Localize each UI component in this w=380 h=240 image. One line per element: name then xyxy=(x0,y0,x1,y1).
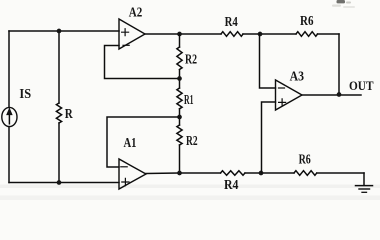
node: A1 output junction xyxy=(177,171,182,176)
svg-text:R6: R6 xyxy=(300,14,314,29)
ground xyxy=(363,173,365,185)
node: OUT junction xyxy=(337,92,342,97)
wire right vertical from R6 top xyxy=(338,34,340,95)
svg-text:A2: A2 xyxy=(129,6,143,21)
op-amp A1 xyxy=(119,159,146,189)
wire A1 feedback xyxy=(107,117,180,167)
node: R1/R2 junction (A1 feedback) xyxy=(177,115,182,120)
resistor R6 (top) xyxy=(296,32,318,37)
resistor R6 (bottom) xyxy=(294,171,317,176)
wire A1 output rail xyxy=(146,172,364,175)
svg-text:R6: R6 xyxy=(299,152,311,167)
svg-text:R4: R4 xyxy=(224,178,239,193)
node: R top junction xyxy=(57,29,62,34)
op-amp A3 xyxy=(276,80,303,110)
wire A3 output / OUT xyxy=(302,94,361,96)
node: R2/R1 junction (A2 feedback) xyxy=(177,76,182,81)
svg-text:R2: R2 xyxy=(185,52,197,67)
wire bottom rail left xyxy=(9,182,119,184)
op-amp A2 xyxy=(119,19,145,49)
wire A3 inverting input xyxy=(260,34,276,88)
wire A2 feedback xyxy=(105,46,180,79)
svg-text:IS: IS xyxy=(19,87,31,102)
svg-text:R: R xyxy=(65,107,74,122)
wire middle chain vertical xyxy=(179,34,181,173)
resistor R1 xyxy=(177,88,182,109)
wire left vertical xyxy=(8,31,10,183)
svg-text:A3: A3 xyxy=(290,70,304,85)
resistor R xyxy=(56,103,61,123)
resistor R2 (lower) xyxy=(177,125,182,145)
resistor R4 (top) xyxy=(221,32,243,37)
svg-text:A1: A1 xyxy=(124,136,137,151)
node: R4/R6 bottom junction xyxy=(259,171,264,176)
svg-text:R1: R1 xyxy=(184,93,194,108)
svg-text:R2: R2 xyxy=(186,134,198,149)
current source IS xyxy=(2,107,17,126)
node: R4/R6 top junction xyxy=(258,32,263,37)
wire R branch vertical xyxy=(58,31,60,183)
scan smudge top right xyxy=(332,0,355,8)
wire A3 non-inverting input xyxy=(262,102,276,173)
resistor R4 (bottom) xyxy=(221,171,246,176)
node: R bottom junction xyxy=(57,180,62,185)
wire top rail left xyxy=(9,30,119,32)
resistor R2 (upper) xyxy=(177,47,182,69)
wire A2 output rail xyxy=(145,33,339,35)
node: A2 output junction xyxy=(177,32,182,37)
svg-text:R4: R4 xyxy=(225,15,238,30)
svg-text:OUT: OUT xyxy=(349,79,374,93)
